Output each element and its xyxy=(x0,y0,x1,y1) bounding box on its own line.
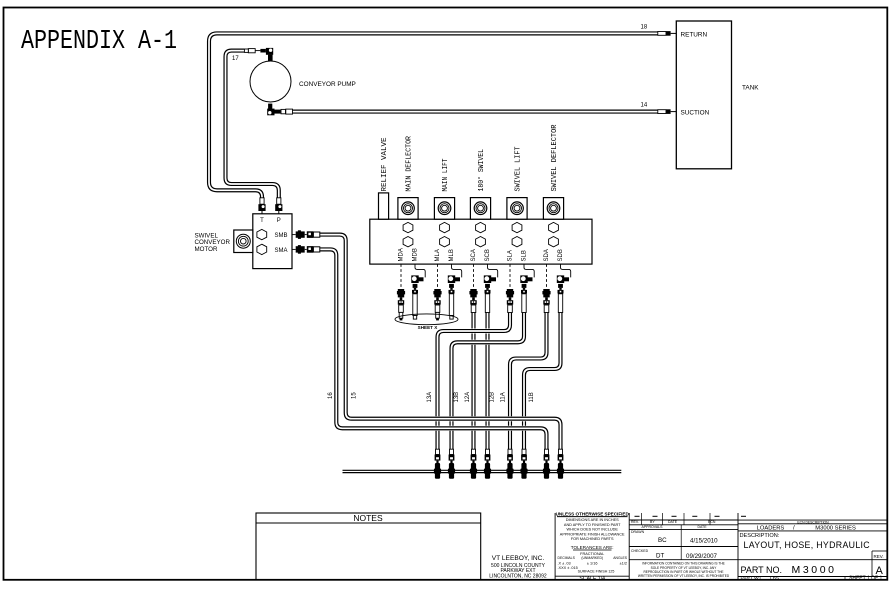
svg-text:SURFACE FINISH 125: SURFACE FINISH 125 xyxy=(578,569,615,573)
hex plugs V4 SWIVEL LIFT xyxy=(512,222,522,232)
motor case xyxy=(234,230,253,253)
svg-text:11A: 11A xyxy=(501,392,507,402)
svg-text:.XXX ± .015: .XXX ± .015 xyxy=(558,566,578,570)
svg-text:SCALE 1/4: SCALE 1/4 xyxy=(579,576,605,582)
svg-text:REV.: REV. xyxy=(631,520,639,524)
svg-text:REV.: REV. xyxy=(874,554,884,559)
port SMA hex xyxy=(257,244,267,254)
svg-text:13A: 13A xyxy=(427,392,433,403)
svg-text:SHEET 1 OF 1: SHEET 1 OF 1 xyxy=(849,575,882,581)
valve manifold block xyxy=(370,219,592,264)
svg-text:18: 18 xyxy=(641,25,648,31)
coupler at port MDA xyxy=(397,264,405,320)
company box xyxy=(554,513,556,580)
svg-text:16: 16 xyxy=(328,392,334,399)
bulkhead fitting hose 12B xyxy=(484,449,491,479)
tolerance box xyxy=(628,513,630,580)
svg-text:SCB: SCB xyxy=(485,249,491,261)
svg-text:LAYOUT, HOSE, HYDRAULIC: LAYOUT, HOSE, HYDRAULIC xyxy=(744,540,871,550)
coupler at port SLA xyxy=(506,264,514,312)
port SMB hex xyxy=(257,229,267,239)
bulkhead fitting hose 15 xyxy=(557,449,564,479)
svg-text:APPROVALS: APPROVALS xyxy=(642,525,664,529)
svg-text:SHEET X: SHEET X xyxy=(418,325,439,330)
bulkhead fitting hose 13B xyxy=(448,449,455,479)
svg-text:APPROPRIATE FINISH ALLOWANCE: APPROPRIATE FINISH ALLOWANCE xyxy=(560,532,625,536)
hex plugs V1 MAIN DEFLECTOR xyxy=(403,222,413,232)
svg-text:SUCTION: SUCTION xyxy=(681,110,710,117)
coupler at port SLB xyxy=(520,264,534,312)
svg-text:RETURN: RETURN xyxy=(681,31,708,38)
notes box xyxy=(256,513,481,580)
svg-text:WHICH DOES NOT INCLUDE: WHICH DOES NOT INCLUDE xyxy=(566,528,618,532)
svg-text:09/29/2007: 09/29/2007 xyxy=(686,553,718,560)
svg-text:CHECKED: CHECKED xyxy=(631,549,649,553)
bulkhead fitting hose 11B xyxy=(520,449,527,479)
svg-text:LBS: LBS xyxy=(770,575,779,581)
svg-text:BC: BC xyxy=(658,537,667,544)
hex plugs V5 SWIVEL DEFLECTOR xyxy=(549,222,559,232)
hose 17 (pump outlet to motor P) xyxy=(226,51,279,200)
part description block xyxy=(741,515,746,517)
svg-text:NOTES: NOTES xyxy=(353,513,383,523)
hose 15 (from port SMB) xyxy=(320,235,561,450)
motor T elbow fitting xyxy=(258,198,265,214)
svg-text:PART WT.: PART WT. xyxy=(741,575,763,581)
svg-text:SDA: SDA xyxy=(544,249,550,261)
svg-text:MOTOR: MOTOR xyxy=(195,246,218,253)
hex plugs V3 180 SWIVEL xyxy=(476,222,486,232)
svg-text:TOLERANCES ARE:: TOLERANCES ARE: xyxy=(571,545,614,550)
svg-text:WRITTEN PERMISSION OF VT LEEBO: WRITTEN PERMISSION OF VT LEEBOY, INC. IS… xyxy=(638,574,730,578)
svg-text:MLB: MLB xyxy=(449,249,455,261)
hose 12B (from port SCB) xyxy=(485,313,490,450)
hose 13A (from port SLA) xyxy=(438,313,511,450)
svg-text:(UNMARKED): (UNMARKED) xyxy=(581,556,603,560)
svg-text:±1/2: ±1/2 xyxy=(620,562,627,566)
svg-text:SCA: SCA xyxy=(471,249,477,261)
svg-text:T: T xyxy=(260,218,264,224)
tank return fitting xyxy=(658,31,677,36)
svg-text:SWIVEL DEFLECTOR: SWIVEL DEFLECTOR xyxy=(551,124,559,191)
svg-text:MDB: MDB xyxy=(412,248,418,261)
svg-text:SLA: SLA xyxy=(507,250,513,261)
svg-text:14: 14 xyxy=(641,103,648,109)
coupler at port MLB xyxy=(448,264,462,319)
bulkhead fitting hose 13A xyxy=(434,449,441,479)
svg-text:AND APPLY TO FINISHED PART: AND APPLY TO FINISHED PART xyxy=(564,523,621,527)
hose 13B (from port SLB) xyxy=(452,313,525,450)
svg-text:DATE: DATE xyxy=(668,520,678,524)
motor P elbow fitting xyxy=(275,198,282,214)
svg-text:SMA: SMA xyxy=(275,248,288,254)
svg-text:13B: 13B xyxy=(454,392,460,403)
svg-text:MAIN LIFT: MAIN LIFT xyxy=(442,158,450,191)
svg-text:ECN: ECN xyxy=(708,520,716,524)
hose 14 (tank suction to pump) xyxy=(293,109,658,114)
coupler at port SDA xyxy=(542,264,550,312)
bulkhead fitting hose 12A xyxy=(470,449,477,479)
svg-text:DIMENSIONS ARE IN INCHES: DIMENSIONS ARE IN INCHES xyxy=(566,518,619,522)
tank suction fitting xyxy=(658,109,677,114)
svg-text:BY: BY xyxy=(650,520,655,524)
valve section V1 MAIN DEFLECTOR xyxy=(398,198,418,220)
revision/approval table xyxy=(737,513,739,580)
swivel conveyor motor block xyxy=(253,214,292,269)
svg-text:4/15/2010: 4/15/2010 xyxy=(690,537,718,544)
svg-text:CONVEYOR PUMP: CONVEYOR PUMP xyxy=(299,81,356,88)
svg-text:LINCOLNTON, NC 28092: LINCOLNTON, NC 28092 xyxy=(489,574,547,580)
valve section V3 180 SWIVEL xyxy=(470,198,490,220)
svg-text:DESCRIPTION:: DESCRIPTION: xyxy=(740,533,780,539)
svg-text:APPENDIX A-1: APPENDIX A-1 xyxy=(21,27,177,57)
valve section V2 MAIN LIFT xyxy=(434,198,454,220)
svg-text:DT: DT xyxy=(656,553,664,560)
svg-text:VT LEEBOY, INC.: VT LEEBOY, INC. xyxy=(492,555,545,562)
svg-text:DRAWN: DRAWN xyxy=(631,530,645,534)
conveyor pump P1 xyxy=(250,61,291,102)
svg-text:SWIVEL LIFT: SWIVEL LIFT xyxy=(515,146,523,191)
svg-text:MDA: MDA xyxy=(398,248,404,261)
tank xyxy=(676,21,731,169)
hose 16 (from port SMA) xyxy=(320,249,547,449)
svg-text:FOR MACHINED PARTS: FOR MACHINED PARTS xyxy=(571,537,614,541)
hose 11B (from port SDB) xyxy=(524,313,561,450)
svg-text:MLA: MLA xyxy=(435,249,441,261)
coupler at port SCB xyxy=(484,264,498,312)
svg-text:SLB: SLB xyxy=(521,250,527,261)
svg-text:TANK: TANK xyxy=(742,85,759,92)
svg-text:12A: 12A xyxy=(465,392,471,403)
bulkhead fitting hose 11A xyxy=(506,449,513,479)
svg-text:11B: 11B xyxy=(529,392,535,402)
hex plugs V2 MAIN LIFT xyxy=(440,222,450,232)
svg-text:15: 15 xyxy=(352,392,358,399)
coupler at port SDB xyxy=(557,264,571,312)
motor SMA fitting chain xyxy=(292,245,320,254)
motor SMB fitting chain xyxy=(292,230,320,239)
svg-text:M3000: M3000 xyxy=(792,564,837,576)
svg-text:SDB: SDB xyxy=(558,249,564,261)
hose 18 (tank return to motor T) xyxy=(209,33,658,199)
hose 11A (from port SDA) xyxy=(510,313,547,450)
svg-text:UNLESS OTHERWISE SPECIFIED: UNLESS OTHERWISE SPECIFIED xyxy=(556,512,630,517)
coupler at port SCA xyxy=(469,264,477,312)
bulkhead rail xyxy=(343,469,622,471)
svg-text:P: P xyxy=(277,218,281,224)
svg-text:DECIMALS: DECIMALS xyxy=(558,556,576,560)
svg-text:MAIN DEFLECTOR: MAIN DEFLECTOR xyxy=(406,136,414,192)
svg-text:12B: 12B xyxy=(490,392,496,403)
svg-text:SMB: SMB xyxy=(275,233,288,239)
sheet reference ellipse xyxy=(395,314,458,325)
valve section V5 SWIVEL DEFLECTOR xyxy=(543,198,563,220)
svg-text:ANGLES: ANGLES xyxy=(613,556,627,560)
pump outlet elbow fitting xyxy=(244,48,273,61)
pump suction elbow fitting xyxy=(267,104,292,116)
relief valve RV1 xyxy=(379,193,389,219)
hose 12A (from port SCA) xyxy=(471,313,476,450)
svg-text:± 1/16: ± 1/16 xyxy=(587,562,598,566)
coupler at port MDB xyxy=(411,264,425,319)
svg-text:180° SWIVEL: 180° SWIVEL xyxy=(477,149,486,192)
bulkhead fitting hose 16 xyxy=(543,449,550,479)
valve section V4 SWIVEL LIFT xyxy=(507,198,527,220)
svg-text:PART NO.: PART NO. xyxy=(741,565,783,575)
svg-text:DATE: DATE xyxy=(697,525,707,529)
svg-text:RELIEF VALVE: RELIEF VALVE xyxy=(381,137,389,191)
svg-text:17: 17 xyxy=(232,56,239,62)
coupler at port MLA xyxy=(433,264,441,320)
